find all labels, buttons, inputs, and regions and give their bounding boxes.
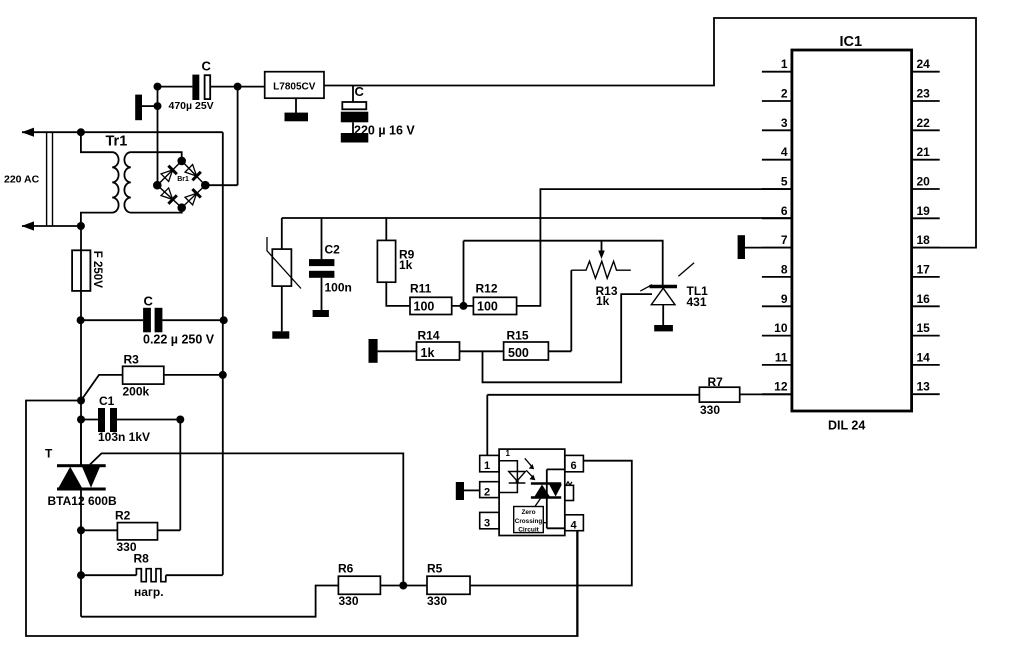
label C 022 — [144, 294, 154, 309]
node C022 right — [220, 316, 228, 324]
pin 6 IC1 left — [762, 204, 792, 219]
wire R8 right lead — [166, 574, 223, 576]
pin 5 box — [565, 485, 574, 500]
wire R8 left lead — [81, 574, 136, 576]
svg-text:15: 15 — [917, 321, 931, 335]
wire R5 to opto pin6 — [470, 461, 632, 586]
wire AC line top — [22, 131, 223, 133]
svg-text:4: 4 — [570, 520, 577, 532]
svg-text:Zero: Zero — [521, 509, 535, 516]
label Br1 — [177, 176, 189, 183]
svg-text:8: 8 — [781, 262, 788, 276]
pin 1 IC1 left — [762, 57, 792, 72]
pin 23 IC1 right — [912, 87, 940, 102]
wire minus rail to bridge — [157, 87, 159, 186]
svg-text:C: C — [144, 294, 154, 309]
value R7 330 — [700, 403, 720, 417]
pin 5 IC1 left — [762, 175, 792, 190]
value R6 330 — [339, 594, 359, 608]
svg-text:IC1: IC1 — [840, 34, 863, 50]
pin 7 IC1 left — [762, 233, 792, 248]
svg-text:R15: R15 — [507, 329, 529, 343]
node C1 left — [77, 416, 85, 424]
label IC1 — [840, 34, 863, 50]
diode Br1 bottom-left — [161, 187, 177, 203]
svg-text:10: 10 — [774, 321, 788, 335]
label R9 — [399, 248, 415, 262]
svg-text:7: 7 — [781, 233, 788, 247]
svg-text:17: 17 — [917, 262, 931, 276]
arrow R13 wiper — [598, 251, 605, 260]
svg-text:1k: 1k — [596, 294, 610, 308]
wire varistor bottom lead — [281, 286, 283, 331]
pin 14 IC1 right — [912, 350, 940, 365]
wire C1 to R2 riser — [179, 420, 181, 531]
opto LED — [509, 472, 526, 484]
regulator U1 L7805CV — [265, 72, 324, 99]
pin 5 mark — [566, 482, 572, 485]
svg-text:C1: C1 — [99, 394, 115, 408]
pin 2 box — [480, 482, 499, 499]
label R2 — [115, 509, 131, 523]
svg-text:Tr1: Tr1 — [106, 134, 128, 150]
svg-text:103n 1kV: 103n 1kV — [98, 430, 150, 444]
pin 2 IC1 left — [762, 87, 792, 102]
node supply-minus — [154, 83, 162, 91]
wire R6-R5 — [380, 585, 427, 587]
resistor R5 — [427, 576, 470, 594]
pin 15 IC1 right — [912, 321, 940, 336]
svg-text:R11: R11 — [410, 282, 432, 296]
value nagr — [134, 585, 164, 599]
wire C2 bottom lead — [321, 278, 323, 310]
shunt reference TL1 — [640, 263, 694, 305]
zero crossing box — [514, 507, 544, 534]
svg-text:R5: R5 — [427, 562, 443, 576]
pin 12 IC1 left — [762, 380, 792, 395]
wire left rail middle — [80, 320, 82, 464]
value 100n — [325, 281, 352, 295]
label R8 — [134, 552, 150, 566]
label C2 — [325, 243, 341, 257]
triac T — [57, 464, 106, 490]
ground opto pin2 — [456, 482, 480, 500]
value 103n 1kV — [98, 430, 150, 444]
label Tr1 — [106, 134, 128, 150]
value R15 500 — [508, 346, 529, 360]
wire plus riser — [205, 87, 237, 186]
node R11-R12 — [460, 302, 468, 310]
svg-text:R12: R12 — [476, 282, 498, 296]
wire C2 top lead — [321, 218, 323, 259]
value R14 1k — [421, 346, 435, 360]
node R2 left — [77, 526, 85, 534]
svg-text:1k: 1k — [399, 258, 413, 272]
wire mains cable lines — [47, 132, 53, 226]
wire R15 right lead — [548, 350, 571, 352]
svg-text:R14: R14 — [418, 329, 440, 343]
wire opto triac lead — [547, 469, 565, 528]
resistor R8 load element — [136, 569, 165, 582]
wire R12 to pin5 — [517, 189, 792, 306]
pin 13 IC1 right — [912, 380, 940, 395]
pin 10 IC1 left — [762, 321, 792, 336]
node bridge bottom — [177, 203, 186, 212]
pin 11 IC1 left — [762, 350, 792, 365]
resistor R2 — [117, 523, 157, 540]
opto LED compartment — [499, 461, 517, 493]
label R7 — [708, 375, 724, 389]
pin 9 IC1 left — [762, 292, 792, 307]
node primary bottom — [77, 222, 85, 230]
svg-text:1k: 1k — [421, 346, 435, 360]
ground R14 — [369, 339, 378, 363]
wire feedback to TL1 ref — [483, 294, 653, 382]
ground IC pin7 — [738, 235, 792, 259]
opto photon arrows — [525, 458, 536, 480]
resistor R15 — [504, 342, 549, 360]
label R5 — [427, 562, 443, 576]
wire Vref rail — [282, 217, 792, 219]
svg-text:220 µ 16 V: 220 µ 16 V — [354, 124, 415, 138]
capacitor C2 — [309, 259, 334, 278]
arrow AC bottom — [22, 221, 35, 230]
svg-text:11: 11 — [775, 350, 788, 364]
wire pin12 to opto — [486, 395, 488, 456]
label C1 — [99, 394, 115, 408]
value 431 — [687, 295, 707, 309]
label F 250V — [91, 251, 103, 288]
diode Br1 top-right — [185, 164, 201, 180]
chip IC1 body — [792, 50, 912, 411]
ground — [135, 95, 157, 121]
svg-text:470µ 25V: 470µ 25V — [169, 100, 214, 112]
wire R11-R12 — [452, 305, 474, 307]
svg-text:1: 1 — [506, 449, 511, 458]
wire C1 leads — [81, 419, 180, 421]
value R11 100 — [414, 300, 435, 314]
pin 17 IC1 right — [912, 262, 940, 277]
value 0.22u 250V — [143, 333, 215, 347]
value R2 330 — [117, 540, 137, 554]
label R6 — [338, 562, 354, 576]
wire opto gate diag — [535, 499, 541, 507]
pin 8 IC1 left — [762, 262, 792, 277]
wire R14 left lead — [378, 350, 417, 352]
svg-text:431: 431 — [687, 295, 707, 309]
svg-text:5: 5 — [781, 175, 788, 189]
svg-text:100n: 100n — [325, 281, 352, 295]
svg-text:6: 6 — [570, 460, 576, 472]
wire MT1 to R6 — [81, 586, 338, 617]
wire rail to fuse — [80, 226, 82, 250]
svg-text:12: 12 — [774, 380, 788, 394]
label C 220u — [355, 84, 365, 99]
node primary top — [77, 128, 85, 136]
opto triac — [531, 484, 562, 498]
svg-text:13: 13 — [917, 380, 931, 394]
wire R13 left leg — [570, 270, 572, 351]
label TL1 — [687, 284, 709, 298]
svg-text:R6: R6 — [338, 562, 354, 576]
resistor R12 — [473, 297, 516, 314]
svg-text:R8: R8 — [134, 552, 150, 566]
svg-text:21: 21 — [917, 145, 931, 159]
wire R9 top lead — [385, 218, 387, 240]
svg-text:1: 1 — [484, 460, 490, 472]
svg-text:3: 3 — [484, 518, 490, 530]
wire regulator ground lead — [295, 98, 297, 113]
wire top supply node — [158, 86, 265, 88]
pin 3 box — [480, 512, 499, 529]
svg-text:330: 330 — [700, 403, 720, 417]
ground varistor — [272, 331, 289, 338]
svg-text:100: 100 — [477, 300, 498, 314]
optocoupler U2 body — [499, 449, 565, 535]
capacitor C 220u lead — [352, 86, 354, 103]
wire TL1 anode lead — [662, 305, 664, 326]
svg-text:C: C — [202, 59, 212, 74]
node R8 left — [77, 571, 85, 579]
transformer Tr1 secondary winding — [124, 152, 181, 212]
node gate junction — [399, 582, 407, 590]
node bridge right — [201, 181, 210, 190]
resistor R3 — [123, 366, 164, 384]
wire R3 left lead — [81, 375, 123, 401]
diode Br1 bottom-right — [185, 189, 201, 205]
svg-text:24: 24 — [917, 57, 931, 71]
label R14 — [418, 329, 440, 343]
svg-text:22: 22 — [917, 116, 931, 130]
svg-text:2: 2 — [484, 487, 490, 499]
label opto pin1 inside — [506, 449, 511, 458]
node bridge top — [177, 157, 186, 166]
bridge Br1 diamond — [157, 161, 205, 208]
svg-text:20: 20 — [917, 175, 931, 189]
wire R7 right lead — [740, 393, 792, 395]
svg-text:F 250V: F 250V — [91, 251, 103, 288]
wire R11 junction riser — [463, 241, 465, 306]
pin 4 IC1 left — [762, 145, 792, 160]
node C022 left — [77, 316, 85, 324]
svg-text:Br1: Br1 — [177, 176, 189, 183]
label R13 — [596, 284, 618, 298]
svg-text:4: 4 — [781, 145, 788, 159]
label DIL 24 — [828, 419, 865, 433]
value R12 100 — [477, 300, 498, 314]
svg-text:DIL 24: DIL 24 — [828, 419, 865, 433]
svg-text:BTA12 600B: BTA12 600B — [48, 494, 117, 508]
svg-text:9: 9 — [781, 292, 788, 306]
label 220 AC — [4, 174, 40, 186]
wire zc lead — [543, 522, 547, 524]
label R15 — [507, 329, 529, 343]
value R9 1k — [399, 258, 413, 272]
capacitor C 220u — [341, 102, 369, 122]
svg-text:500: 500 — [508, 346, 529, 360]
ground C 220u — [341, 133, 369, 143]
svg-text:C2: C2 — [325, 243, 341, 257]
value R13 1k — [596, 294, 610, 308]
svg-text:нагр.: нагр. — [134, 585, 164, 599]
svg-text:16: 16 — [917, 292, 931, 306]
ground C2 — [313, 310, 329, 317]
pin 1 box — [480, 455, 499, 472]
pin 22 IC1 right — [912, 116, 940, 131]
value R5 330 — [427, 594, 447, 608]
svg-text:C: C — [355, 84, 365, 99]
wire varistor top lead — [281, 218, 283, 249]
label R12 — [476, 282, 498, 296]
wire R2 leads — [81, 529, 180, 531]
node R3 junction — [77, 397, 85, 405]
svg-text:R2: R2 — [115, 509, 131, 523]
node C1 right — [176, 416, 184, 424]
pin 4 box — [565, 515, 584, 532]
svg-text:L7805CV: L7805CV — [273, 82, 316, 93]
fuse F1 — [72, 250, 90, 291]
value BTA12 600B — [48, 494, 117, 508]
svg-text:R3: R3 — [124, 353, 140, 367]
pin 20 IC1 right — [912, 175, 940, 190]
wire R13 top wire — [464, 241, 663, 287]
svg-text:Circuit: Circuit — [518, 526, 539, 533]
wire opto pin4 down — [576, 531, 578, 636]
value 470u 25V — [169, 100, 214, 112]
resistor R9 — [377, 240, 395, 282]
node ground join — [154, 102, 162, 110]
node bridge left — [153, 181, 162, 190]
svg-text:6: 6 — [781, 204, 788, 218]
resistor R11 — [410, 297, 452, 314]
svg-text:330: 330 — [339, 594, 359, 608]
svg-text:200k: 200k — [123, 385, 150, 399]
pin 18 IC1 right — [912, 233, 940, 248]
svg-text:100: 100 — [414, 300, 435, 314]
node bridge-plus top — [234, 83, 242, 91]
svg-text:14: 14 — [917, 350, 931, 364]
label C 470u — [202, 59, 212, 74]
wire MT2 outer loop — [26, 401, 578, 637]
wire 5V output — [324, 18, 976, 248]
pin 24 IC1 right — [912, 57, 940, 72]
potentiometer R13 — [571, 261, 631, 278]
wire R3 right lead — [164, 374, 223, 376]
wire R14-R15 — [460, 350, 504, 352]
wire fuse to C node — [80, 291, 82, 320]
pin 19 IC1 right — [912, 204, 940, 219]
wire AC hot rail — [222, 132, 224, 575]
capacitor C 470u — [192, 75, 210, 100]
wire C022 leads — [81, 319, 224, 321]
resistor R14 — [417, 342, 460, 360]
resistor R7 — [699, 387, 739, 402]
pin 21 IC1 right — [912, 145, 940, 160]
svg-text:220 AC: 220 AC — [4, 174, 40, 186]
capacitor C1 — [98, 408, 117, 432]
arrow AC top — [22, 128, 35, 137]
ground TL1 — [654, 325, 673, 331]
wire AC line bottom — [22, 225, 81, 227]
value 220u 16V — [354, 124, 415, 138]
wire triac MT2 lead — [80, 420, 82, 467]
svg-text:T: T — [45, 447, 53, 461]
varistor RV1 — [267, 237, 301, 289]
svg-text:Crossing: Crossing — [515, 518, 543, 525]
pin 16 IC1 right — [912, 292, 940, 307]
label T — [45, 447, 53, 461]
svg-text:23: 23 — [917, 87, 931, 101]
svg-text:3: 3 — [781, 116, 788, 130]
wire C 220u to ground — [352, 122, 354, 134]
transformer Tr1 primary winding — [81, 132, 119, 226]
wire R7 left wire — [487, 394, 699, 396]
wire R13 wiper — [601, 241, 603, 252]
wire triac MT1 lead — [80, 488, 82, 617]
wire R9 bottom lead — [386, 282, 410, 306]
svg-text:19: 19 — [917, 204, 931, 218]
pin 6 box — [565, 455, 584, 472]
svg-text:1: 1 — [781, 57, 788, 71]
svg-text:18: 18 — [917, 233, 931, 247]
pin 3 IC1 left — [762, 116, 792, 131]
capacitor C 0.22u — [143, 308, 162, 333]
svg-text:R7: R7 — [708, 375, 724, 389]
svg-text:330: 330 — [427, 594, 447, 608]
resistor R6 — [338, 576, 380, 594]
diode Br1 top-left — [161, 166, 177, 182]
label R11 — [410, 282, 432, 296]
svg-text:2: 2 — [781, 87, 788, 101]
node R3 right — [219, 371, 227, 379]
ground regulator — [285, 113, 309, 122]
svg-text:0.22 µ 250 V: 0.22 µ 250 V — [143, 333, 215, 347]
value 200k — [123, 385, 150, 399]
label R3 — [124, 353, 140, 367]
wire triac gate — [90, 453, 403, 585]
